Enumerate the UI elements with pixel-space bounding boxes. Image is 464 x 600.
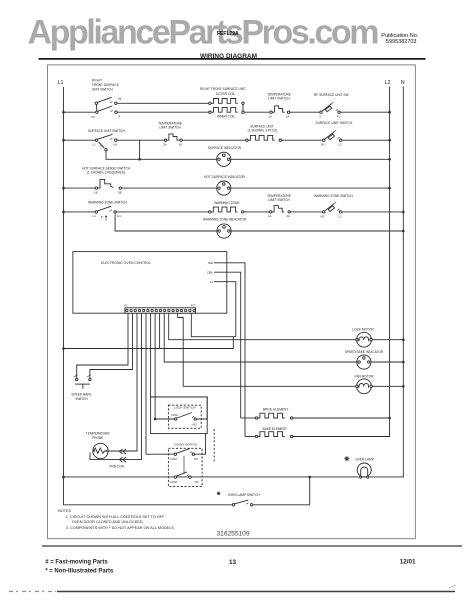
label temperature limit switch row1: [267, 93, 291, 101]
svg-text:BROIL ELEMENT: BROIL ELEMENT: [263, 407, 288, 411]
wire pin6 door switch loop: [151, 313, 208, 419]
L1 bus: [64, 87, 310, 505]
wire warming indicator to N: [231, 230, 403, 232]
label bake element: [262, 427, 286, 431]
wire pin1 to speed bake switch left: [77, 313, 128, 378]
switch oven lamp: [232, 500, 253, 506]
switch SW3 (surface unit, left): [64, 134, 118, 151]
wire row4 to warming resistor: [116, 211, 208, 213]
svg-text:L2: L2: [338, 143, 342, 147]
svg-text:HOT SURFACE INDICATOR: HOT SURFACE INDICATOR: [204, 175, 245, 179]
junction L1 row4: [62, 211, 65, 214]
svg-text:(1 SHOWN, 3 PLCS): (1 SHOWN, 3 PLCS): [248, 129, 278, 133]
svg-text:UNIT SWITCH: UNIT SWITCH: [92, 88, 114, 92]
switch SW4 (surface unit, right): [321, 130, 342, 146]
svg-text:H1: H1: [114, 142, 118, 146]
part number 316255109: [217, 531, 250, 538]
label rf surface unit sw: [314, 93, 348, 97]
label oven lamp: [355, 458, 374, 462]
title WIRING DIAGRAM: [200, 53, 257, 60]
wire speed bake indicator to N: [371, 361, 403, 363]
switch door pole2: [170, 472, 199, 484]
svg-text:13: 13: [229, 559, 237, 566]
lamp hot surface indicator: [217, 181, 231, 195]
svg-text:OUTER COIL: OUTER COIL: [216, 92, 236, 96]
svg-text:* = Non-Illustrated Parts: * = Non-Illustrated Parts: [45, 568, 114, 574]
svg-text:NC: NC: [195, 480, 199, 484]
svg-text:FAN MOTOR: FAN MOTOR: [355, 375, 375, 379]
wire pin8 to L1 feed: [159, 313, 161, 348]
svg-text:H2: H2: [321, 143, 325, 147]
label surface unit coil row2: [248, 124, 278, 132]
label warming zone switch right: [314, 194, 354, 198]
svg-text:P17: P17: [191, 304, 196, 308]
label broil element: [263, 407, 288, 411]
thermal switch hot surface sense: [94, 179, 122, 194]
wire EOC IND stub: [208, 261, 245, 437]
thermal switch TL3: [268, 206, 290, 219]
svg-text:AppliancePartsPros.com: AppliancePartsPros.com: [28, 14, 380, 52]
switch lock (com-no): [171, 413, 198, 427]
label PRB CON: [109, 465, 124, 469]
svg-text:4a: 4a: [118, 97, 122, 101]
wire row2 coil to switch: [282, 139, 323, 141]
wire EOC L1 stub: [210, 280, 236, 337]
connector PRB CON chevrons top: [120, 449, 127, 454]
svg-text:LIMIT SWITCH: LIMIT SWITCH: [268, 97, 290, 101]
wire door pole1 no return: [195, 434, 206, 455]
wire pin17 to EOC L1 stub: [191, 313, 236, 337]
wire broil element to L2: [293, 417, 390, 419]
junction L2 row3b: [388, 187, 391, 190]
wire row1 upper contact to outer coil: [117, 102, 210, 104]
label hot surface indicator: [204, 175, 245, 179]
label surface unit switch row2 right: [316, 121, 353, 125]
svg-text:2: 2: [319, 115, 321, 119]
wire row2 temp limit to coil: [182, 139, 246, 141]
node L2 label: [385, 80, 391, 86]
svg-text:LOCK SWITCH: LOCK SWITCH: [174, 406, 196, 410]
wire L1 feed to EOC: [64, 337, 234, 349]
svg-text:NO: NO: [194, 457, 199, 461]
svg-text:WARMING ZONE SWITCH: WARMING ZONE SWITCH: [88, 200, 128, 204]
svg-text:L1: L1: [93, 142, 97, 146]
switch SW2 (rf surface unit): [319, 102, 341, 118]
thermal switch TL2: [163, 134, 182, 147]
EOC box electronic oven control U1: [73, 252, 227, 314]
svg-text:SURFACE UNIT SWITCH: SURFACE UNIT SWITCH: [88, 129, 125, 133]
wire pin3 to probe: [108, 313, 137, 451]
svg-text:COM: COM: [170, 480, 177, 484]
svg-text:SURFACE UNIT SWITCH: SURFACE UNIT SWITCH: [316, 121, 353, 125]
svg-text:RIGHT: RIGHT: [92, 79, 102, 83]
svg-text:P: P: [101, 215, 103, 219]
label oven lamp switch: [228, 493, 261, 497]
label door switch: [175, 442, 197, 446]
resistor warming zone: [209, 207, 244, 213]
wire row2 to temp limit: [117, 139, 164, 141]
scan noise bottom edge: [9, 585, 456, 592]
resistor bake element: [255, 432, 292, 438]
junction L2 row1: [388, 111, 391, 114]
lamp surface indicator: [217, 152, 231, 166]
wire lock motor to N: [372, 339, 403, 341]
wire pin11 to fan motor: [178, 313, 356, 386]
wire fan motor to N: [372, 385, 403, 387]
svg-text:PRB CON: PRB CON: [109, 465, 124, 469]
box door switch assembly: [151, 397, 208, 434]
svg-text:PROBE: PROBE: [92, 436, 103, 440]
wire row1 lower contact to inner coil: [117, 111, 210, 113]
svg-text:BAKE ELEMENT: BAKE ELEMENT: [262, 427, 286, 431]
lamp warming zone indicator: [217, 224, 231, 238]
label rf surface unit coils: [200, 87, 246, 119]
connector strip P1: [125, 304, 197, 314]
svg-text:SWITCH: SWITCH: [75, 397, 88, 401]
label surface indicator: [208, 146, 242, 150]
svg-text:L1: L1: [210, 280, 214, 284]
svg-text:2A: 2A: [163, 143, 167, 147]
node N label: [401, 80, 405, 86]
svg-text:SURFACE INDICATOR: SURFACE INDICATOR: [208, 146, 242, 150]
junction L2 row3a: [388, 158, 391, 161]
svg-text:LOCK MOTOR: LOCK MOTOR: [352, 328, 374, 332]
junction door com: [154, 418, 157, 421]
lamp speed bake indicator: [357, 355, 371, 369]
svg-text:FRONT SURFACE: FRONT SURFACE: [92, 83, 119, 87]
svg-text:WARMING ZONE SWITCH: WARMING ZONE SWITCH: [314, 194, 354, 198]
svg-text:WARMING ZONE INDICATOR: WARMING ZONE INDICATOR: [203, 218, 247, 222]
wire surface indicator to L2: [231, 158, 390, 160]
wire L1 to sense switch: [64, 187, 96, 189]
wire row1 temp limit to rf switch: [290, 111, 320, 113]
svg-text:DOOR SWITCH: DOOR SWITCH: [175, 442, 197, 446]
box door switch dashed: [168, 448, 202, 486]
connector PRB CON chevrons bottom: [120, 457, 127, 462]
svg-text:OVEN LAMP SWITCH: OVEN LAMP SWITCH: [228, 493, 261, 497]
N bus: [64, 87, 404, 477]
svg-text:# = Fast-moving Parts: # = Fast-moving Parts: [45, 560, 108, 566]
wire pin10 to lock motor: [169, 313, 356, 340]
wire pin5 to lock switch pole1: [146, 313, 174, 454]
junction L1 row2: [62, 139, 65, 142]
wire row4 to N: [342, 211, 404, 213]
svg-text:12/01: 12/01: [400, 559, 416, 566]
junction L2 row2: [388, 139, 391, 142]
wire row2 drop to indicator row: [139, 140, 141, 159]
junction N row4b: [402, 230, 405, 233]
svg-text:COM: COM: [171, 413, 178, 417]
svg-text:L1: L1: [93, 214, 97, 218]
svg-text:(1 SHOWN, 3 REQUIRED): (1 SHOWN, 3 REQUIRED): [87, 171, 125, 175]
box lock switch dashed: [168, 405, 201, 428]
wire EOC DBL stub: [207, 270, 240, 418]
label warming zone: [214, 201, 239, 205]
svg-text:P: P: [101, 144, 103, 148]
svg-text:1A: 1A: [269, 115, 273, 119]
junction L1 row3b: [62, 187, 65, 190]
link door to oven lamp switch dashed: [213, 429, 215, 462]
junction oven lamp switch riser: [308, 476, 311, 479]
thermal switch TL1: [269, 106, 290, 119]
resistor broil element: [255, 413, 292, 419]
label lock motor: [352, 328, 374, 332]
svg-text:INNER COIL: INNER COIL: [217, 115, 235, 119]
svg-text:NOTES: NOTES: [58, 509, 72, 513]
svg-text:P1: P1: [125, 304, 129, 308]
svg-text:3. COMPONENTS WITH * DO NOT: 3. COMPONENTS WITH * DO NOT APPEAR ON AL…: [66, 526, 175, 530]
wire temp limit to warming switch right: [290, 211, 322, 213]
svg-text:FEFL79A: FEFL79A: [217, 31, 239, 37]
label surface unit switch row2: [88, 129, 125, 133]
label temperature limit switch row4: [267, 194, 291, 202]
svg-text:LIMIT SWITCH: LIMIT SWITCH: [159, 125, 181, 129]
outer border: [48, 65, 416, 539]
resistor surface unit row2: [246, 135, 282, 141]
switch SW1 (right front surface unit, DPST): [64, 97, 122, 119]
switch SW5 (warming zone left): [64, 206, 122, 221]
svg-text:4: 4: [119, 114, 121, 118]
svg-text:2A: 2A: [286, 115, 290, 119]
wire row1 to L2: [340, 111, 389, 113]
svg-text:RIGHT FRONT SURFACE UNIT: RIGHT FRONT SURFACE UNIT: [200, 87, 246, 91]
L2 bus: [292, 87, 390, 437]
svg-text:H2: H2: [321, 214, 325, 218]
svg-text:1. CIRCUIT SHOWN WITH ALL CON: 1. CIRCUIT SHOWN WITH ALL CONTROLS SET T…: [66, 515, 165, 519]
junction L1 door wire: [62, 476, 65, 479]
switch door pole1: [170, 448, 199, 461]
svg-text:SPEED BAKE INDICATOR: SPEED BAKE INDICATOR: [345, 350, 384, 354]
publication number block: [381, 33, 418, 45]
wire switch lower contact drop: [106, 151, 217, 159]
wire coil link: [242, 105, 244, 112]
svg-text:LIMIT SWITCH: LIMIT SWITCH: [268, 198, 290, 202]
wire row4 drop to warming indicator: [115, 213, 217, 231]
model number text: [217, 31, 239, 37]
switch SW6 (warming zone right): [321, 202, 343, 218]
junction N lock motor: [402, 338, 405, 341]
svg-text:1A: 1A: [179, 143, 183, 147]
title underline: [39, 58, 426, 60]
svg-text:IND: IND: [208, 261, 213, 265]
link door switch poles: [183, 456, 185, 474]
svg-text:DBL: DBL: [207, 270, 213, 274]
junction N speed bake indicator: [402, 361, 405, 364]
svg-text:WARMING ZONE: WARMING ZONE: [214, 201, 239, 205]
label temperature limit switch row2: [158, 121, 182, 129]
wire row2 to L2: [342, 139, 390, 141]
wire warming resistor to temp limit: [244, 211, 270, 213]
svg-text:H1: H1: [117, 214, 121, 218]
lamp oven lamp: [357, 463, 371, 478]
footer rule: [42, 545, 462, 547]
svg-text:N: N: [401, 80, 405, 86]
svg-text:1A: 1A: [268, 214, 272, 218]
svg-text:ELECTRONIC OVEN CONTROL: ELECTRONIC OVEN CONTROL: [101, 261, 151, 265]
svg-text:P2: P2: [92, 115, 96, 119]
svg-text:2A: 2A: [287, 214, 291, 218]
footer legend: [45, 559, 416, 575]
wire row1 to temp limit: [244, 111, 270, 113]
switch speed bake: [71, 375, 91, 401]
junction L1 row1: [62, 111, 65, 114]
svg-text:2B: 2B: [118, 190, 122, 194]
wire pin7 to door switch com: [155, 313, 174, 419]
wire sense switch to hot indicator: [122, 187, 217, 189]
svg-text:P1: P1: [337, 115, 341, 119]
svg-text:5995382703: 5995382703: [386, 39, 417, 45]
label warming zone switch left: [88, 200, 128, 204]
watermark AppliancePartsPros.com: [28, 14, 380, 52]
label temperature probe: [86, 432, 110, 440]
svg-text:NO: NO: [193, 423, 198, 427]
label fan motor: [355, 375, 375, 379]
wire pin2 to speed bake switch right: [90, 313, 133, 378]
svg-text:L1: L1: [58, 80, 64, 86]
notes text: [58, 509, 175, 530]
svg-text:OVEN DOOR CLOSED AND UNLOCKED.: OVEN DOOR CLOSED AND UNLOCKED.: [72, 520, 144, 524]
resistor inner coil: [209, 107, 245, 113]
svg-text:L2: L2: [385, 80, 391, 86]
junction indicator drop: [138, 158, 141, 161]
junction L1 feed: [62, 347, 65, 350]
svg-text:OVEN LAMP: OVEN LAMP: [355, 458, 374, 462]
motor fan motor: [356, 379, 373, 394]
junction L2 broil: [388, 417, 391, 420]
svg-text:RF SURFACE UNIT SW: RF SURFACE UNIT SW: [314, 93, 348, 97]
svg-text:1B: 1B: [94, 190, 98, 194]
svg-text:SPEED BAKE: SPEED BAKE: [71, 392, 91, 396]
wire hot indicator to L2: [231, 187, 390, 189]
junction N row4: [402, 211, 405, 214]
motor lock motor: [356, 332, 373, 347]
label speed bake indicator: [345, 350, 384, 354]
wire dbl to broil element: [241, 417, 256, 419]
resistor outer coil: [209, 99, 245, 105]
label lock switch: [174, 406, 196, 410]
wire ind to bake element: [245, 436, 255, 438]
label right front surface unit switch: [92, 79, 119, 92]
label hot surface sense switch: [82, 167, 130, 175]
wire pin9 to speed bake indicator: [164, 313, 356, 362]
node L1 label: [58, 80, 64, 86]
wire pin4 to probe return: [90, 313, 142, 459]
label warming zone indicator: [203, 218, 247, 222]
junction N fan motor: [402, 385, 405, 388]
svg-text:L2: L2: [338, 214, 342, 218]
svg-text:COM: COM: [170, 457, 177, 461]
resistor temperature probe: [93, 443, 109, 458]
svg-text:316255109: 316255109: [217, 531, 250, 538]
